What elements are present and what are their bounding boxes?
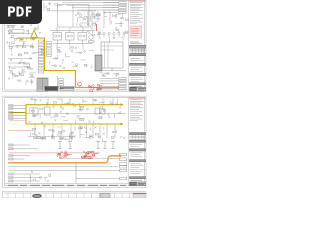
- page 2 title notes dense: [130, 99, 142, 101]
- page 1 red vertical mark: [96, 24, 98, 31]
- page 1 title dark band a: [130, 63, 146, 65]
- page 2 yellow header bottom: [26, 123, 121, 125]
- page 2 red cloud a: [60, 151, 63, 153]
- page 2 sheet: [3, 96, 147, 187]
- page 1 risers: [56, 27, 58, 31]
- page 1 dense table center-b: [60, 86, 74, 90]
- page 1 below-badge rows: [7, 24, 16, 26]
- page 1 left process cluster: [26, 30, 28, 32]
- page 2 title red top line: [129, 97, 146, 99]
- page 2 pink line b: [8, 130, 33, 132]
- page 2 mid texture: [51, 136, 53, 138]
- page 1 yellow highlighted pipe: [17, 38, 75, 71]
- page 2 pink line a: [9, 120, 27, 122]
- page 2 title dark band b: [130, 149, 146, 151]
- page 2 title bottom block: [130, 182, 146, 186]
- page 1 title notes sparse: [130, 14, 142, 16]
- page 3 sheet: [3, 192, 147, 198]
- page 2 hanging supports: [59, 141, 61, 149]
- page 2 bottom title strip: [5, 182, 129, 184]
- page 3 ruler ticks: [7, 193, 9, 198]
- pdf badge letter F: [26, 7, 32, 17]
- page 1 small cluster above flags: [102, 74, 104, 76]
- page 1 title grid bottom dark band: [130, 54, 146, 56]
- page 2 yellow header top: [26, 105, 121, 124]
- page 1 orange highlighted pipe: [75, 71, 118, 88]
- page 1 top-right flags: [119, 2, 126, 4]
- page 2 pump cluster right: [95, 108, 100, 114]
- page 2 left line entries: [9, 105, 26, 107]
- page 2 bottom long lines: [9, 170, 120, 172]
- page 2 pump box a: [33, 108, 38, 115]
- page 2 long pink line: [9, 152, 100, 154]
- page 2 title dark band c: [130, 160, 146, 162]
- page 1 title pink holds box: [130, 26, 142, 38]
- page 1 top-center texture: [87, 18, 89, 23]
- page 1 red revision circle: [78, 83, 82, 87]
- page 1 title mid sections: [130, 58, 140, 60]
- page 2 drops above header: [34, 98, 36, 105]
- page 2 bottom cluster: [29, 174, 31, 179]
- page 1 top feed lines: [62, 2, 118, 4]
- page 2 drops below band: [79, 125, 81, 138]
- page 2 orange arrow: [120, 154, 123, 157]
- page 1 dense table center-a: [45, 86, 58, 91]
- page 1 header line: [47, 10, 96, 12]
- page 1 title scale row: [130, 41, 139, 43]
- page 1 title dark band c: [130, 83, 146, 85]
- page 3 frame top: [5, 192, 145, 194]
- page 2 symbols in band: [100, 117, 102, 119]
- pdf badge: [0, 0, 42, 24]
- page 2 low header line: [28, 136, 74, 138]
- page 1 bottom-right flags: [119, 78, 126, 80]
- page 1 title dark band b: [130, 73, 146, 75]
- page 1 top-center detail box: [58, 5, 90, 28]
- page 1 title bottom block: [130, 87, 146, 91]
- page 1 drops below exchangers: [56, 44, 58, 50]
- page 2 yellow feeder: [9, 112, 26, 114]
- page 3 mid grey block: [100, 194, 110, 198]
- page 1 title red top line: [129, 0, 146, 2]
- page 1 title column divider: [128, 1, 130, 90]
- page 2 yellow arrow top: [121, 103, 124, 106]
- page 1 title table header: [130, 45, 146, 48]
- page 1 red revision scribble: [97, 88, 99, 90]
- page 1 instrument row above vessel: [98, 32, 100, 34]
- page 2 right label boxes: [120, 153, 127, 156]
- page 2 band center pipe: [26, 113, 126, 115]
- page 1 right-top cluster: [120, 21, 122, 27]
- page 1 stacked boxes center: [59, 79, 64, 81]
- page 1 ladder boxes left: [38, 40, 44, 42]
- page 1 ladder boxes right: [46, 42, 51, 44]
- page 1 supports under yellow line: [20, 38, 22, 41]
- page 1 pump small: [89, 35, 93, 39]
- page 1 title table grid: [130, 48, 146, 50]
- page 2 vertical drop: [75, 163, 77, 184]
- page 1 sheet: [3, 0, 147, 92]
- page 2 pump box b: [45, 107, 51, 115]
- page 1 yellow relief triangle: [31, 30, 38, 37]
- page 1 left lower cluster: [10, 71, 12, 73]
- page 1 exchanger row line: [50, 30, 95, 32]
- page 1 right vessel: [101, 42, 123, 68]
- page 1 right-top verticals: [87, 11, 89, 26]
- page 2 symbols above header: [35, 100, 37, 102]
- page 2 title mid table dark: [130, 133, 146, 135]
- page 2 yellow arrow bottom: [121, 122, 124, 125]
- page 1 center texture: [90, 65, 92, 68]
- page 2 title notes sparse: [130, 111, 142, 113]
- page 2 drawing frame: [5, 98, 145, 186]
- page 2 middle left entries: [9, 144, 30, 146]
- page 1 title notes dense: [130, 2, 142, 4]
- page 1 exchangers: [53, 33, 62, 41]
- page 2 bottom-left entries: [9, 173, 40, 175]
- page 2 title column divider: [128, 98, 130, 186]
- page 1 dense table left-center: [37, 78, 48, 91]
- page 2 title dark band a: [130, 140, 146, 142]
- page 3 stamp blob: [33, 194, 42, 197]
- page 1 detail box divider: [72, 5, 74, 28]
- pdf badge letter P: [8, 7, 15, 17]
- page 1 drawing frame: [5, 1, 145, 90]
- page 1 left cluster headers: [8, 58, 32, 60]
- page 1 drop line center: [57, 76, 59, 92]
- page 2 orange highlighted pipe: [8, 156, 120, 163]
- pdf badge letter D: [17, 7, 24, 17]
- page 1 vessel internals top: [101, 45, 123, 47]
- page 2 symbols below band: [37, 136, 41, 138]
- page 2 drops below band left: [34, 125, 36, 136]
- page 2 red cloud b: [86, 155, 91, 157]
- page 1 horizontal drum: [12, 30, 24, 34]
- page 3 title block with red line: [133, 193, 146, 198]
- page 1 detail block near vessel: [95, 55, 102, 71]
- page 2 title dark band d: [130, 177, 146, 179]
